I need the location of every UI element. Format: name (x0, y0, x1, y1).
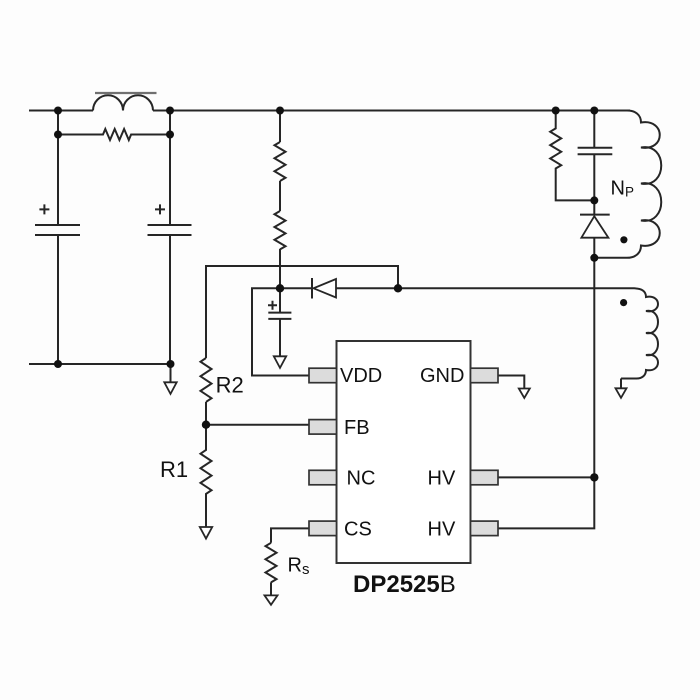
wire top bus left segment (29, 110, 93, 112)
wire HV main vertical (593, 258, 595, 478)
resistor snubber (550, 111, 594, 201)
wire Rs ground stem (270, 582, 272, 595)
resistor startup lower (275, 211, 286, 249)
inductor L1 (93, 95, 153, 110)
node dot right-resistor-row (166, 131, 174, 139)
wire FB (206, 424, 309, 426)
transformer secondary winding (398, 288, 658, 378)
svg-text:DP2525B: DP2525B (353, 571, 456, 598)
resistor Rs (266, 543, 277, 583)
diode D1 stem top (593, 200, 595, 214)
capacitor snubber stem bottom (593, 154, 595, 200)
svg-text:CS: CS (344, 518, 372, 540)
pin GND (471, 368, 499, 383)
inductor core bar (95, 92, 157, 94)
wire startup chain to VDD node (279, 249, 281, 288)
diode D2 cathode bar (311, 278, 313, 299)
resistor parallel with inductor (58, 129, 170, 140)
capacitor C3 stem bottom (279, 319, 281, 357)
wire HV pin lower (498, 477, 594, 528)
node dot HV (590, 473, 598, 481)
pin HV lower (471, 521, 499, 536)
pin NC (309, 470, 337, 485)
IC U1 body (337, 341, 471, 563)
svg-text:FB: FB (344, 417, 370, 439)
svg-text:R1: R1 (160, 457, 188, 482)
pin CS (309, 521, 337, 536)
capacitor C3 plus sign (268, 301, 277, 310)
pin FB (309, 420, 337, 435)
node dot left-resistor-row (54, 131, 62, 139)
wire left rail lower (57, 235, 59, 364)
wire right rail upper (169, 111, 171, 226)
ground arrow Rs (265, 595, 278, 604)
svg-text:GND: GND (420, 365, 464, 387)
capacitor C1 plus sign (39, 204, 49, 214)
wire R2 top loop (206, 266, 398, 358)
resistor startup upper (275, 142, 286, 181)
node dot snubber bottom (590, 196, 598, 204)
wire startup chain upper (279, 111, 281, 143)
node dot VDD (276, 284, 284, 292)
ground arrow GND pin (519, 389, 530, 399)
node dot snubber right (590, 107, 598, 115)
wire VDD node to diode (280, 287, 312, 289)
node dot bottom-right (167, 360, 175, 368)
wire right rail lower (169, 235, 171, 364)
capacitor C2 plates (148, 225, 192, 235)
capacitor C1 plates (35, 225, 80, 235)
node dot snubber left (552, 107, 560, 115)
resistor R2 (201, 358, 212, 402)
ground arrow secondary (616, 388, 627, 398)
polarity dot secondary (620, 299, 627, 306)
wire GND pin (498, 376, 524, 389)
capacitor C3 stem top (279, 288, 281, 312)
node dot primary bottom (590, 254, 598, 262)
svg-text:HV: HV (428, 467, 456, 489)
transformer primary winding (594, 111, 661, 258)
diode D1 triangle (581, 216, 608, 238)
wire VDD feed (252, 288, 309, 375)
svg-text:VDD: VDD (340, 365, 382, 387)
pin HV upper (471, 470, 499, 485)
svg-text:NP: NP (611, 177, 634, 199)
node dot bottom-left (54, 360, 62, 368)
wire top bus right segment (153, 110, 630, 112)
node dot top-left (54, 107, 62, 115)
node dot right of inductor (166, 107, 174, 115)
ground arrow R1 (200, 527, 212, 539)
wire diode to aux node (336, 287, 398, 289)
capacitor snubber plates (578, 148, 613, 155)
resistor R1 (201, 425, 212, 527)
svg-text:NC: NC (347, 467, 376, 489)
wire left rail upper (57, 111, 59, 226)
ground arrow C3 (274, 356, 286, 368)
capacitor C2 plus sign (155, 204, 165, 214)
node dot aux (394, 284, 402, 292)
wire HV pin upper (498, 476, 594, 478)
pin VDD (309, 368, 337, 383)
ground arrow input section (164, 382, 176, 394)
polarity dot primary (620, 236, 627, 243)
node dot FB (202, 421, 210, 429)
capacitor C3 plates (268, 313, 291, 319)
svg-text:HV: HV (428, 518, 456, 540)
wire bottom bus (29, 363, 171, 365)
capacitor snubber stem top (593, 111, 595, 148)
wire ground stem input (170, 364, 172, 382)
svg-text:R2: R2 (216, 372, 244, 397)
wire between startup resistors (279, 181, 281, 211)
diode D1 cathode bar (580, 214, 610, 216)
diode D2 triangle (314, 279, 337, 298)
svg-text:Rs: Rs (288, 555, 310, 579)
wire R2 to FB node (205, 402, 207, 425)
wire secondary ground stem (620, 379, 622, 389)
node dot startup top (276, 107, 284, 115)
diode D1 stem bottom (593, 238, 595, 258)
wire CS to Rs (271, 528, 309, 542)
